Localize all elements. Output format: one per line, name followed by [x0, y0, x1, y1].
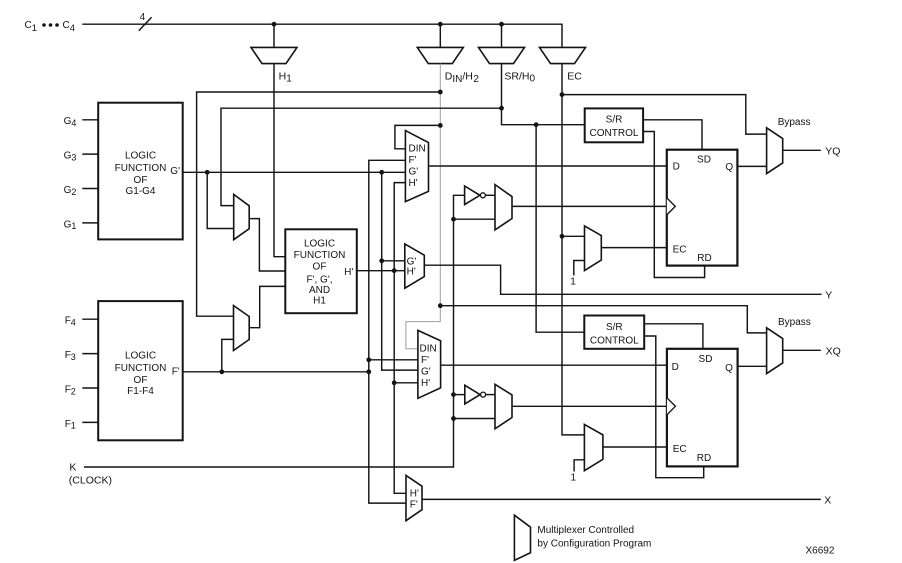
- flip-flop FF1: [667, 150, 738, 266]
- wire DIN/H2 vertical (thin gray) from mux down to lower junction: [406, 64, 440, 349]
- svg-text:CONTROL: CONTROL: [590, 335, 639, 346]
- legend text multiplexer controlled: [537, 525, 651, 549]
- wire lower EC mux output to FF2 EC: [603, 446, 667, 448]
- node junction dot H' feeder to lower DIN mux: [392, 380, 397, 385]
- svg-text:LOGIC: LOGIC: [304, 238, 335, 249]
- svg-text:OF: OF: [134, 175, 148, 186]
- svg-text:FUNCTION: FUNCTION: [294, 250, 346, 261]
- mux H1 config trapezoid: [251, 47, 297, 63]
- bus width slash mark 4: [139, 12, 152, 31]
- input stub F1: [82, 421, 98, 423]
- wire C bus top horizontal, bends down into EC mux: [82, 24, 562, 47]
- svg-text:H1: H1: [279, 71, 293, 85]
- wire EC branch to upper bypass mux top input: [562, 95, 767, 135]
- input stub G2: [82, 188, 98, 190]
- node junction dot F' feeder to lower DIN mux: [366, 357, 371, 362]
- wire DIN/H2 line to lower bypass mux top input: [440, 306, 766, 333]
- wire S/R1 output to FF1 SD: [643, 120, 702, 150]
- svg-text:F': F': [421, 355, 429, 366]
- wire H' output line to G'H' mux input: [357, 270, 405, 272]
- wire bus drop into SR/H0 mux: [501, 24, 503, 47]
- box S/R control 1: [585, 108, 643, 142]
- mux lower bypass: [767, 328, 783, 374]
- mux G-side input select trapezoid: [234, 194, 250, 239]
- svg-text:H': H': [344, 267, 353, 278]
- svg-text:F3: F3: [65, 350, 76, 362]
- node junction dot S/R branch at y124.7: [534, 122, 539, 127]
- svg-text:EC: EC: [673, 244, 687, 255]
- node junction dot DIN/H2 at y125: [438, 123, 443, 128]
- wire Y output from G'H' mux: [424, 265, 821, 294]
- wire bus drop into H1 mux: [273, 24, 275, 47]
- wire DIN/H2 branch left to F-side feeder vertical: [197, 92, 441, 316]
- wire F' branch up into F-side small mux lower input: [222, 339, 234, 371]
- svg-text:D: D: [672, 362, 679, 373]
- node junction dot EC at y94.6: [560, 92, 565, 97]
- svg-text:Q: Q: [725, 363, 733, 374]
- wire FF1 Q to upper bypass mux: [737, 165, 766, 167]
- svg-text:G': G': [170, 166, 180, 177]
- mux lower DIN F' G' H' select: [418, 330, 441, 398]
- wire SR/H0 vertical down then right into S/R control 1: [502, 64, 585, 125]
- node junction dot bus to DIN/H2 mux: [438, 22, 443, 27]
- svg-text:RD: RD: [697, 453, 711, 464]
- svg-text:Q: Q: [725, 162, 733, 173]
- svg-text:G4: G4: [64, 116, 77, 128]
- svg-text:X6692: X6692: [806, 546, 835, 557]
- input stub G4: [82, 119, 98, 121]
- svg-text:Y: Y: [825, 289, 832, 301]
- svg-text:H': H': [421, 378, 430, 389]
- node junction dot G' branch 1: [205, 170, 210, 175]
- mux F-side input select trapezoid: [234, 306, 250, 351]
- wire bus drop into DIN/H2 mux: [439, 24, 441, 47]
- svg-text:G1: G1: [64, 219, 77, 231]
- svg-text:4: 4: [140, 12, 146, 23]
- node junction dot SR/H0 at y108: [499, 106, 504, 111]
- svg-text:X: X: [824, 495, 831, 507]
- svg-text:AND: AND: [309, 285, 330, 296]
- wire clock branch to lower inverter: [454, 394, 465, 396]
- wire lower clock mux output to FF2 clock: [512, 405, 667, 407]
- wire G' output line to upper DIN mux: [183, 171, 406, 173]
- node junction dot F' branch 1: [219, 369, 224, 374]
- wire EC vertical from mux down to lower EC 1-mux: [562, 64, 584, 435]
- svg-text:C1: C1: [25, 20, 38, 34]
- mux EC config trapezoid: [540, 47, 586, 63]
- mux upper EC 1-select: [570, 226, 601, 288]
- wire S/R2 output to FF2 SD: [644, 324, 703, 349]
- mux upper DIN F' G' H' select: [405, 131, 428, 202]
- svg-text:FUNCTION: FUNCTION: [115, 363, 167, 374]
- svg-text:C4: C4: [63, 20, 76, 34]
- svg-text:EC: EC: [673, 444, 687, 455]
- svg-text:G': G': [421, 366, 431, 377]
- input stub F4: [82, 318, 98, 320]
- svg-text:Bypass: Bypass: [778, 317, 811, 328]
- wire K clock line right then up the clock feeder vertical: [84, 195, 465, 467]
- svg-text:DIN/H2: DIN/H2: [445, 71, 480, 85]
- node junction dot G' branch 2: [379, 170, 384, 175]
- wire H' branch into lower DIN mux: [394, 382, 418, 384]
- node C1...C4 input label: [25, 20, 76, 34]
- node junction dot clock feeder upper mux input: [451, 217, 456, 222]
- wire S/R1 output wrap to FF1 RD: [643, 132, 705, 278]
- mux DIN/H2 config trapezoid: [417, 47, 463, 63]
- svg-text:G': G': [409, 167, 419, 178]
- svg-text:DIN: DIN: [420, 344, 437, 355]
- svg-text:SD: SD: [699, 354, 713, 365]
- node junction dot clock feeder lower inverter input: [451, 392, 456, 397]
- svg-text:RD: RD: [697, 253, 711, 264]
- box logic function of F' G' and H1: [285, 229, 357, 313]
- svg-text:EC: EC: [567, 71, 582, 83]
- svg-text:Multiplexer Controlled: Multiplexer Controlled: [537, 525, 634, 536]
- legend mux symbol: [514, 515, 530, 560]
- mux upper bypass: [767, 128, 783, 174]
- node junction dot G' feeder to G'H' mux: [379, 258, 384, 263]
- mux SR/H0 config trapezoid: [479, 47, 525, 63]
- wire clock branch to upper clock mux lower input: [454, 218, 496, 220]
- wire G' branch down into G-side small mux lower input: [207, 172, 234, 228]
- svg-text:SD: SD: [697, 155, 711, 166]
- svg-text:F2: F2: [65, 384, 76, 396]
- svg-text:FUNCTION: FUNCTION: [115, 163, 167, 174]
- svg-text:LOGIC: LOGIC: [125, 151, 156, 162]
- wire G-side mux output into H box middle input: [249, 219, 285, 271]
- wire F-side mux output into H box lower input: [249, 286, 285, 327]
- inverter upper clock: [465, 186, 495, 205]
- svg-text:1: 1: [570, 277, 576, 288]
- wire upper clock mux output to FF1 clock: [512, 205, 667, 207]
- svg-text:G2: G2: [64, 185, 77, 197]
- wire FF2 Q to lower bypass mux: [738, 365, 767, 367]
- svg-text:(CLOCK): (CLOCK): [69, 474, 112, 486]
- svg-text:Bypass: Bypass: [778, 117, 811, 128]
- input stub F3: [82, 353, 98, 355]
- node junction dot clock feeder lower mux input: [451, 416, 456, 421]
- inverter lower clock: [465, 385, 495, 404]
- input stub G1: [82, 222, 98, 224]
- svg-text:S/R: S/R: [606, 114, 623, 125]
- svg-text:F': F': [409, 155, 417, 166]
- wire F' branch into lower DIN mux: [369, 359, 418, 361]
- wire F' feeder vertical up to upper DIN mux and down to H'F' mux: [369, 160, 406, 503]
- node junction dot DIN/H2 line bottom: [438, 303, 443, 308]
- svg-text:D: D: [673, 161, 680, 172]
- wire S/R2 output wrap to FF2 RD: [644, 336, 704, 478]
- input stub G3: [82, 153, 98, 155]
- svg-text:XQ: XQ: [826, 346, 841, 358]
- svg-text:H': H': [410, 489, 419, 500]
- wire F' output line to F' feeder vertical: [183, 371, 369, 373]
- wire EC branch into upper EC 1-mux: [562, 235, 585, 237]
- node junction dot EC at y236.3: [560, 234, 565, 239]
- svg-text:H': H': [407, 267, 416, 278]
- svg-text:LOGIC: LOGIC: [125, 351, 156, 362]
- box logic function of G1-G4: [98, 103, 183, 240]
- box logic function of F1-F4: [98, 301, 183, 440]
- mux lower clock edge select: [495, 384, 512, 429]
- wire DIN wrap into upper DIN mux input: [395, 125, 440, 148]
- node junction dot bus to SR/H0 mux: [499, 22, 504, 27]
- svg-text:F': F': [410, 500, 418, 511]
- wire XQ output: [783, 349, 821, 351]
- svg-text:F1-F4: F1-F4: [127, 386, 154, 397]
- mux lower EC 1-select: [571, 424, 603, 483]
- svg-text:OF: OF: [134, 375, 148, 386]
- node junction dot F' feeder end of F' line: [366, 369, 371, 374]
- node junction dot H' line: [392, 268, 397, 273]
- svg-text:1: 1: [571, 472, 577, 483]
- wire SR/H0 branch left to G-side feeder vertical: [221, 108, 502, 205]
- svg-text:CONTROL: CONTROL: [590, 128, 639, 139]
- svg-text:F4: F4: [65, 316, 76, 328]
- wire X output from H'F' mux: [422, 498, 821, 500]
- node junction dot DIN/H2 at y92: [438, 90, 443, 95]
- svg-text:SR/H0: SR/H0: [504, 71, 535, 85]
- svg-text:F', G',: F', G',: [306, 275, 332, 286]
- input stub F2: [82, 387, 98, 389]
- wire YQ output: [783, 149, 821, 151]
- wire G' branch into G'H' mux: [382, 260, 405, 262]
- svg-text:H1: H1: [313, 296, 326, 307]
- wire S/R branch vertical down to S/R control 2: [536, 125, 584, 333]
- svg-text:K: K: [69, 462, 76, 474]
- svg-text:G3: G3: [64, 151, 77, 163]
- wire lower DIN mux output to FF2 D input: [441, 364, 667, 366]
- svg-text:DIN: DIN: [409, 144, 426, 155]
- wire G' feeder vertical down to G'H' mux and lower DIN mux: [382, 172, 418, 370]
- mux upper clock edge select: [495, 185, 512, 230]
- wire clock branch to lower clock mux lower input: [454, 418, 496, 420]
- svg-text:S/R: S/R: [606, 322, 623, 333]
- svg-text:G1-G4: G1-G4: [125, 186, 155, 197]
- wire H' feeder vertical up to upper DIN mux and down to H'F' mux: [394, 183, 406, 494]
- wire upper EC mux output to FF1 EC: [601, 247, 667, 249]
- wire upper DIN mux output to FF1 D input: [429, 165, 667, 167]
- box S/R control 2: [584, 316, 644, 349]
- mux G'H' select: [405, 244, 425, 288]
- svg-text:F': F': [172, 367, 180, 378]
- flip-flop FF2: [667, 349, 738, 467]
- svg-text:F1: F1: [65, 419, 76, 431]
- wire H1 vertical from mux down to H-function box input: [274, 64, 285, 257]
- mux H'F' select: [406, 475, 422, 520]
- svg-text:YQ: YQ: [825, 145, 840, 157]
- svg-text:H': H': [409, 178, 418, 189]
- svg-text:OF: OF: [313, 262, 327, 273]
- svg-text:by Configuration Program: by Configuration Program: [537, 538, 651, 549]
- node junction dot bus to H1 mux: [272, 22, 277, 27]
